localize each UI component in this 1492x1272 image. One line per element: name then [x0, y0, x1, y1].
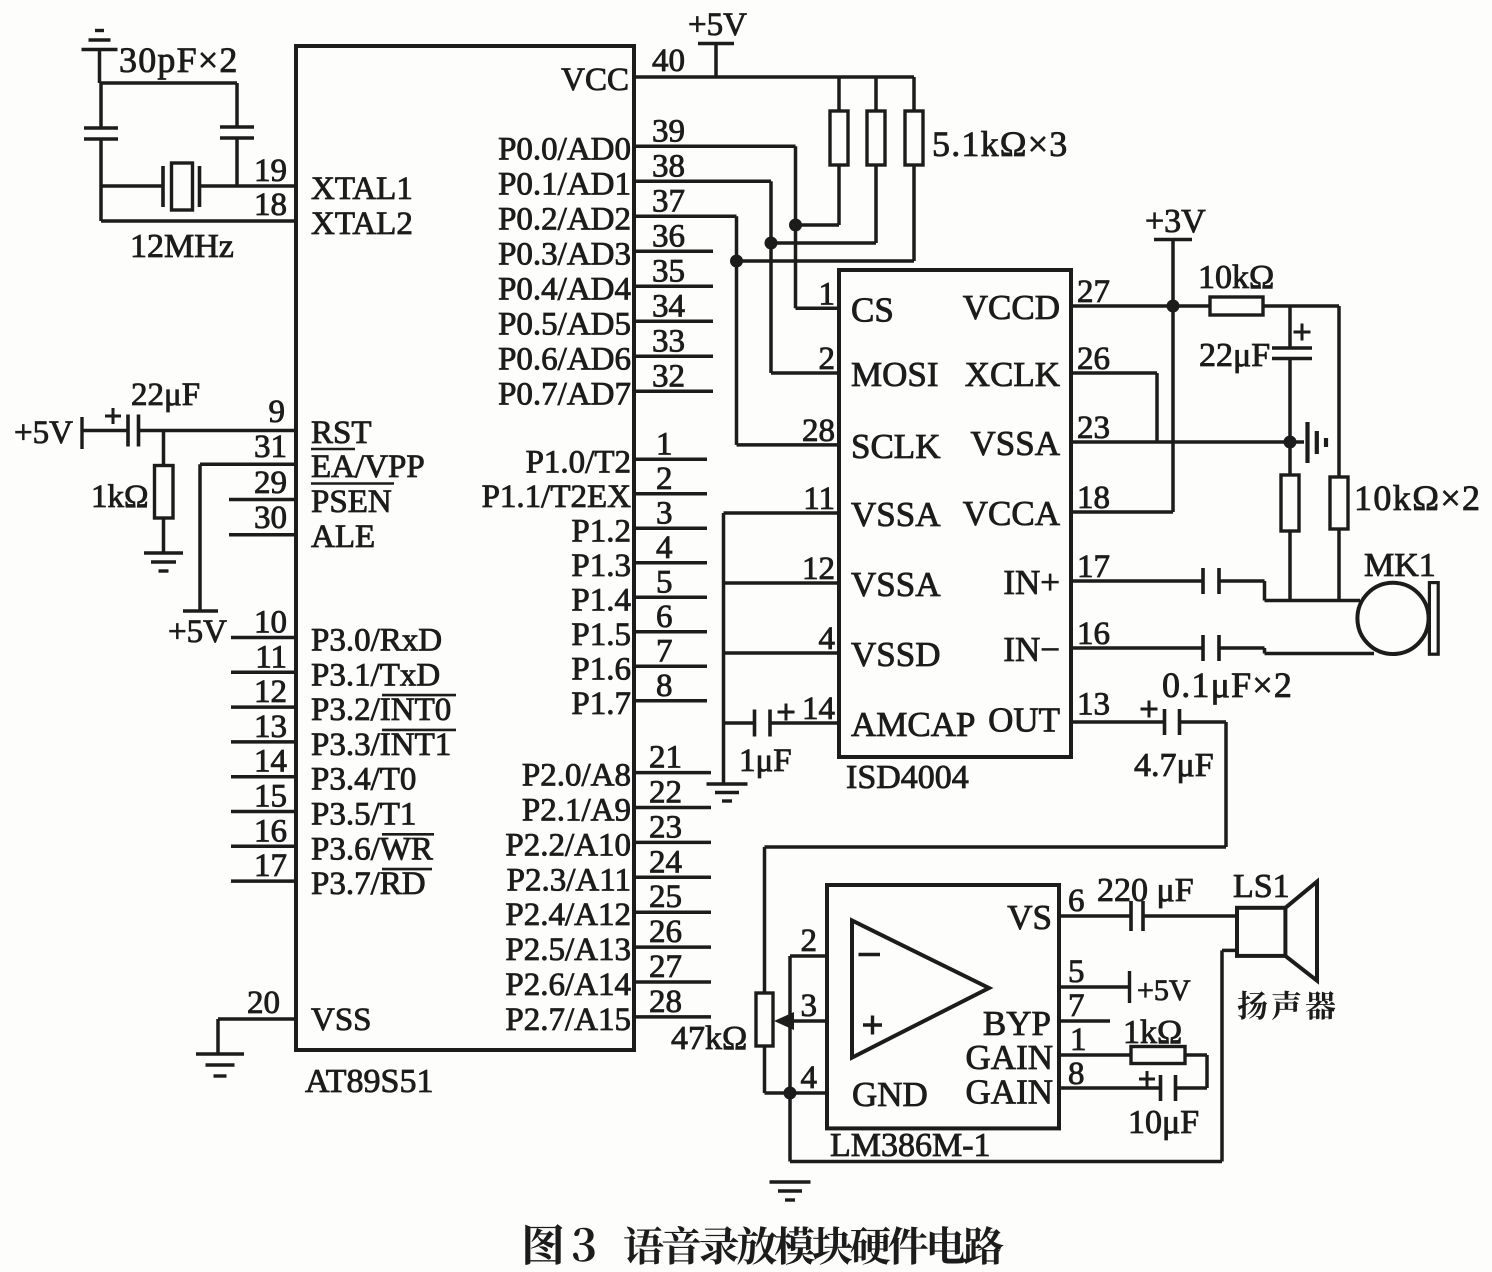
svg-text:26: 26: [649, 914, 682, 950]
capacitor C5 22uF: [1272, 306, 1312, 442]
svg-text:33: 33: [652, 323, 685, 359]
pin P2.5/A13 26: [505, 914, 711, 968]
pin ISD XCLK 26: [965, 341, 1110, 394]
IC U1 AT89S51 body: [296, 46, 634, 1050]
svg-text:IN−: IN−: [1003, 630, 1060, 669]
pin P2.4/A12 25: [505, 879, 711, 933]
svg-text:P2.7/A15: P2.7/A15: [505, 1002, 631, 1038]
ground (R1): [144, 553, 183, 571]
svg-text:22μF: 22μF: [131, 377, 200, 413]
svg-text:12MHz: 12MHz: [130, 228, 234, 265]
svg-text:36: 36: [652, 218, 685, 254]
svg-text:5.1kΩ×3: 5.1kΩ×3: [932, 124, 1068, 164]
pin P3.7/RD 17: [231, 848, 432, 902]
svg-text:P3.2/INT0: P3.2/INT0: [311, 692, 451, 728]
label 10k: [1198, 259, 1274, 296]
svg-text:VSSA: VSSA: [851, 495, 941, 534]
svg-text:MOSI: MOSI: [851, 355, 939, 394]
resistor R1 1k: [155, 431, 174, 554]
pin P3.6/WR 16: [231, 813, 434, 867]
svg-text:5: 5: [656, 564, 673, 600]
svg-text:P1.0/T2: P1.0/T2: [526, 444, 631, 480]
wire R5 to bias: [1263, 304, 1339, 308]
pin P1.5 6: [571, 599, 707, 653]
pin LM386 4 GND: [765, 1060, 928, 1114]
IC U3 LM386M-1 body: [827, 885, 1059, 1128]
svg-text:P3.1/TxD: P3.1/TxD: [311, 657, 440, 693]
wire XTAL1 pin 19: [199, 153, 413, 207]
svg-text:28: 28: [649, 984, 682, 1020]
svg-text:30: 30: [254, 500, 287, 536]
svg-text:17: 17: [254, 848, 287, 884]
label 4.7uF: [1134, 747, 1214, 784]
svg-text:P2.6/A14: P2.6/A14: [505, 967, 631, 1003]
svg-text:RST: RST: [311, 415, 372, 451]
pin LM386 2: [790, 923, 827, 959]
label 1k (gain): [1123, 1014, 1182, 1051]
svg-text:2: 2: [656, 461, 673, 497]
wire +3V to VCCA: [1071, 240, 1173, 513]
svg-text:P2.3/A11: P2.3/A11: [507, 862, 631, 898]
pin ISD IN+ 17: [1003, 549, 1110, 602]
wire top rail: [100, 81, 238, 85]
svg-text:31: 31: [254, 429, 287, 465]
IC U3 label LM386M-1: [830, 1127, 991, 1164]
wire VSSD 4: [724, 651, 840, 655]
pin ISD MOSI 2: [819, 341, 939, 394]
pin P3.1/TxD 11: [231, 639, 440, 693]
svg-text:3: 3: [801, 988, 818, 1024]
svg-text:P1.7: P1.7: [571, 686, 631, 722]
svg-text:LM386M-1: LM386M-1: [830, 1127, 991, 1164]
wire XCLK to VSSA: [1071, 373, 1157, 442]
capacitor C3 22uF: [105, 408, 296, 447]
pin LM386 VS 6: [1007, 883, 1084, 937]
svg-text:18: 18: [254, 187, 287, 223]
pin ISD AMCAP 14: [802, 691, 975, 744]
junction VSSA/C5: [1284, 436, 1297, 449]
caption 图3: [525, 1224, 594, 1265]
svg-text:47kΩ: 47kΩ: [671, 1020, 747, 1057]
svg-text:XTAL1: XTAL1: [311, 171, 413, 207]
pin P0.5/AD5 34: [498, 288, 713, 342]
svg-text:5: 5: [1068, 954, 1085, 990]
svg-text:P2.0/A8: P2.0/A8: [522, 758, 631, 794]
svg-text:EA/VPP: EA/VPP: [311, 449, 425, 485]
svg-text:25: 25: [649, 879, 682, 915]
terminal +5V (LM386): [1130, 971, 1191, 1007]
wire P0.0 to CS: [796, 146, 840, 308]
svg-text:13: 13: [254, 709, 287, 745]
svg-text:P1.4: P1.4: [571, 582, 631, 618]
pin RST 9: [269, 394, 372, 451]
wire VSSA 11: [724, 511, 840, 515]
pin P0.6/AD6 33: [498, 323, 713, 377]
pin VCC 40: [561, 43, 685, 98]
svg-text:+5V: +5V: [168, 614, 227, 650]
label 22uF (RST): [131, 377, 200, 413]
svg-text:ISD4004: ISD4004: [846, 759, 969, 796]
junction P0.0/R2: [789, 219, 802, 232]
svg-text:4: 4: [656, 530, 673, 566]
label 30pF x2: [119, 40, 239, 80]
svg-text:7: 7: [1068, 988, 1085, 1024]
resistor R7 10k: [1330, 306, 1348, 601]
svg-text:10: 10: [254, 605, 287, 641]
pin P3.3/INT1 13: [231, 709, 456, 763]
capacitor C2 30pF: [220, 83, 254, 186]
svg-text:+5V: +5V: [14, 415, 73, 451]
svg-text:XTAL2: XTAL2: [311, 206, 413, 242]
svg-text:VSSA: VSSA: [971, 424, 1061, 463]
svg-text:P1.3: P1.3: [571, 548, 631, 584]
resistor R4 5.1k: [737, 77, 924, 261]
svg-text:GAIN: GAIN: [966, 1038, 1053, 1077]
pin LM386 GAIN 1: [966, 1022, 1131, 1077]
wire gnd rail: [790, 1093, 1222, 1162]
op-amp minus: [859, 953, 881, 957]
wire P0.2 to SCLK: [737, 216, 840, 445]
pin EA/VPP 31: [200, 429, 425, 485]
label 5.1k x3: [932, 124, 1068, 164]
pin ISD VCCA 18: [963, 480, 1110, 533]
svg-text:14: 14: [254, 744, 287, 780]
svg-text:9: 9: [269, 394, 286, 430]
svg-text:16: 16: [254, 813, 287, 849]
wire pin2 to gnd: [788, 956, 792, 1093]
pin P0.4/AD4 35: [498, 253, 713, 307]
wire VSS bus: [722, 513, 726, 784]
svg-text:ALE: ALE: [311, 519, 375, 555]
svg-text:P1.5: P1.5: [571, 617, 631, 653]
pin LM386 GAIN 8: [966, 1056, 1161, 1112]
svg-text:39: 39: [652, 113, 685, 149]
svg-text:CS: CS: [851, 290, 894, 329]
pin P2.6/A14 27: [505, 949, 711, 1003]
pin P3.5/T1 15: [231, 779, 416, 833]
pin P0.7/AD7 32: [498, 358, 713, 412]
svg-text:27: 27: [649, 949, 682, 985]
svg-text:220 μF: 220 μF: [1097, 872, 1194, 909]
pin P1.0/T2 1: [526, 426, 707, 480]
svg-text:OUT: OUT: [988, 701, 1060, 740]
svg-text:32: 32: [652, 358, 685, 394]
svg-text:P0.1/AD1: P0.1/AD1: [498, 166, 631, 202]
svg-text:AMCAP: AMCAP: [851, 705, 975, 744]
pin P2.0/A8 21: [522, 740, 711, 794]
pin P3.2/INT0 12: [231, 674, 456, 728]
svg-text:10kΩ×2: 10kΩ×2: [1354, 478, 1481, 518]
svg-text:VCCA: VCCA: [963, 494, 1061, 533]
wire VCC rail +5V: [634, 75, 914, 79]
svg-text:P2.2/A10: P2.2/A10: [505, 827, 631, 863]
svg-text:MK1: MK1: [1364, 547, 1436, 584]
pin ISD IN− 16: [1003, 616, 1110, 669]
svg-text:1μF: 1μF: [739, 743, 792, 779]
label 10uF: [1128, 1104, 1199, 1141]
svg-text:P3.5/T1: P3.5/T1: [311, 797, 416, 833]
svg-text:P0.5/AD5: P0.5/AD5: [498, 306, 631, 342]
microphone MK1: [1357, 583, 1438, 655]
svg-text:19: 19: [254, 153, 287, 189]
pin P2.3/A11 24: [507, 844, 711, 898]
svg-text:SCLK: SCLK: [851, 427, 940, 466]
svg-text:6: 6: [1068, 883, 1085, 919]
svg-text:PSEN: PSEN: [311, 484, 392, 520]
label 22uF: [1199, 337, 1270, 374]
svg-text:2: 2: [801, 923, 818, 959]
label 0.1uF x2: [1162, 665, 1293, 705]
wire OUT to amp: [765, 722, 1227, 993]
svg-text:11: 11: [255, 639, 287, 675]
svg-text:+5V: +5V: [1137, 974, 1191, 1007]
svg-text:40: 40: [652, 43, 685, 79]
svg-text:P3.0/RxD: P3.0/RxD: [311, 623, 442, 659]
ground (crystal caps): [82, 31, 118, 84]
svg-text:2: 2: [819, 341, 836, 377]
junction VCCD/+3V: [1167, 300, 1180, 313]
svg-text:1: 1: [656, 426, 673, 462]
svg-text:28: 28: [802, 413, 835, 449]
ground (VSS): [196, 1019, 244, 1076]
pin P2.7/A15 28: [505, 984, 711, 1038]
ground (LM386): [770, 1182, 811, 1200]
pot wiper arrow: [774, 1012, 827, 1030]
pin P1.7 8: [571, 668, 707, 722]
label 12MHz: [130, 228, 234, 265]
svg-text:13: 13: [1077, 687, 1110, 723]
wire VSSA 12: [724, 581, 840, 585]
label 47k: [671, 1020, 747, 1057]
svg-text:GAIN: GAIN: [966, 1073, 1053, 1112]
wire VSSA 23: [1071, 440, 1290, 444]
speaker LS1: [1237, 882, 1317, 981]
pin P3.0/RxD 10: [231, 605, 442, 659]
op-amp triangle: [852, 921, 989, 1058]
svg-text:P0.0/AD0: P0.0/AD0: [498, 131, 631, 167]
terminal +5V (RST): [82, 417, 128, 449]
IC U2 label ISD4004: [846, 759, 969, 796]
resistor R8 1k: [1131, 1047, 1207, 1089]
label +5V (RST): [14, 415, 73, 451]
svg-text:+3V: +3V: [1145, 203, 1206, 240]
svg-text:P2.5/A13: P2.5/A13: [505, 932, 631, 968]
pin PSEN 29: [229, 465, 392, 520]
caption text: [624, 1226, 1003, 1265]
label LS1: [1233, 868, 1290, 905]
capacitor C4 1uF: [724, 704, 840, 737]
capacitor C8 4.7uF: [1071, 701, 1180, 736]
label 1k: [91, 479, 149, 515]
wire P0.1 to MOSI: [771, 181, 839, 373]
svg-text:35: 35: [652, 253, 685, 289]
resistor R2 5.1k: [796, 77, 848, 225]
svg-text:AT89S51: AT89S51: [305, 1063, 433, 1100]
svg-text:4: 4: [801, 1060, 818, 1096]
svg-text:GND: GND: [852, 1075, 928, 1114]
svg-text:P1.6: P1.6: [571, 651, 631, 687]
svg-text:22: 22: [649, 775, 682, 811]
svg-text:P3.4/T0: P3.4/T0: [311, 762, 416, 798]
svg-text:VCC: VCC: [561, 62, 629, 98]
pin P0.2/AD2 37: [498, 183, 736, 237]
svg-text:VSSA: VSSA: [851, 565, 941, 604]
resistor R5 10k: [1210, 297, 1263, 315]
svg-text:1: 1: [1070, 1022, 1087, 1058]
pin ISD VSSA 23: [971, 410, 1110, 463]
svg-text:P0.3/AD3: P0.3/AD3: [498, 236, 631, 272]
svg-text:7: 7: [656, 633, 673, 669]
junction P0.2/R4: [730, 255, 743, 268]
terminal +5V (VCC): [688, 7, 747, 77]
svg-text:24: 24: [649, 844, 682, 880]
svg-text:29: 29: [254, 465, 287, 501]
pin P1.4 5: [571, 564, 707, 618]
pin ISD CS 1: [819, 276, 894, 329]
pin P0.1/AD1 38: [498, 148, 771, 202]
capacitor C7 0.1uF: [1071, 635, 1265, 661]
svg-text:VSS: VSS: [311, 1002, 372, 1038]
junction P0.1/R3: [765, 237, 778, 250]
label speaker (CJK): [1238, 991, 1336, 1020]
svg-text:XCLK: XCLK: [965, 355, 1060, 394]
svg-text:P0.7/AD7: P0.7/AD7: [498, 376, 631, 412]
capacitor C6 0.1uF: [1071, 568, 1265, 594]
pin ISD SCLK 28: [802, 413, 940, 466]
wire IN- to MK1: [1265, 648, 1375, 654]
pin P0.3/AD3 36: [498, 218, 713, 272]
svg-text:30pF×2: 30pF×2: [119, 40, 239, 80]
junction pin4/pin2: [784, 1087, 797, 1100]
svg-text:VCCD: VCCD: [963, 288, 1060, 327]
terminal +3V: [1145, 203, 1206, 240]
svg-text:34: 34: [652, 288, 685, 324]
pin P3.4/T0 14: [231, 744, 416, 798]
svg-text:21: 21: [649, 740, 682, 776]
svg-text:P2.4/A12: P2.4/A12: [505, 897, 631, 933]
pin P1.1/T2EX 2: [482, 461, 707, 515]
pin ISD VCCD 27: [963, 274, 1110, 327]
svg-text:P3.6/WR: P3.6/WR: [311, 831, 433, 867]
svg-text:8: 8: [656, 668, 673, 704]
pin P1.2 3: [571, 495, 707, 549]
svg-text:VSSD: VSSD: [851, 635, 940, 674]
svg-text:P2.1/A9: P2.1/A9: [522, 793, 631, 829]
wire speaker return: [1222, 950, 1237, 1161]
svg-text:37: 37: [652, 183, 685, 219]
svg-text:10μF: 10μF: [1128, 1104, 1199, 1141]
svg-text:22μF: 22μF: [1199, 337, 1270, 374]
svg-text:P0.4/AD4: P0.4/AD4: [498, 271, 631, 307]
svg-text:P3.3/INT1: P3.3/INT1: [311, 727, 451, 763]
pin ISD VSSA 12: [802, 551, 941, 604]
op-amp plus: [863, 1016, 882, 1035]
wire VCCD 27: [1071, 304, 1210, 308]
label 220uF: [1097, 872, 1194, 909]
svg-text:3: 3: [656, 495, 673, 531]
ground (analog, sideways): [1290, 422, 1326, 463]
wire XTAL2 pin 18: [101, 187, 413, 242]
pin P1.6 7: [571, 633, 707, 687]
resistor R3 5.1k: [771, 77, 885, 243]
svg-text:1: 1: [819, 276, 836, 312]
capacitor C10 10uF: [1139, 1071, 1176, 1101]
capacitor C1 30pF: [84, 83, 118, 221]
label 1uF: [739, 743, 792, 779]
svg-text:+5V: +5V: [688, 7, 747, 43]
capacitor C9 220uF: [1059, 901, 1237, 931]
svg-text:12: 12: [254, 674, 287, 710]
resistor R6 10k: [1281, 442, 1299, 601]
svg-text:4.7μF: 4.7μF: [1134, 747, 1214, 784]
crystal Y1 12MHz: [101, 163, 200, 210]
IC U1 label AT89S51: [305, 1063, 433, 1100]
svg-text:15: 15: [254, 779, 287, 815]
potentiometer RP1 47k: [756, 993, 773, 1093]
svg-text:P1.1/T2EX: P1.1/T2EX: [482, 479, 632, 515]
pin LM386 3: [801, 988, 818, 1024]
pin P2.1/A9 22: [522, 775, 711, 829]
IC U2 ISD4004 body: [839, 270, 1071, 757]
svg-text:8: 8: [1068, 1056, 1085, 1092]
terminal +5V (EA): [168, 611, 227, 650]
svg-text:23: 23: [649, 809, 682, 845]
pin ISD VSSD 4: [819, 621, 941, 674]
svg-text:10kΩ: 10kΩ: [1198, 259, 1274, 296]
wire IN+ to MK1: [1265, 581, 1361, 601]
pin ALE 30: [229, 500, 375, 555]
svg-text:P0.6/AD6: P0.6/AD6: [498, 341, 631, 377]
svg-text:38: 38: [652, 148, 685, 184]
pin LM386 BYP 7: [983, 988, 1110, 1043]
svg-text:P1.2: P1.2: [571, 513, 631, 549]
svg-text:LS1: LS1: [1233, 868, 1290, 905]
svg-text:1kΩ: 1kΩ: [1123, 1014, 1182, 1051]
ground (VSS bus): [707, 784, 748, 801]
svg-text:P0.2/AD2: P0.2/AD2: [498, 201, 631, 237]
pin LM386 5: [1059, 954, 1130, 990]
svg-text:0.1μF×2: 0.1μF×2: [1162, 665, 1293, 705]
svg-text:6: 6: [656, 599, 673, 635]
pin P0.0/AD0 39: [498, 113, 795, 167]
label MK1: [1364, 547, 1436, 584]
pin P2.2/A10 23: [505, 809, 711, 863]
pin P1.3 4: [571, 530, 707, 584]
wire EA to +5V: [198, 464, 202, 611]
svg-text:VS: VS: [1007, 898, 1052, 937]
svg-text:P3.7/RD: P3.7/RD: [311, 866, 426, 902]
pin VSS 20: [218, 985, 372, 1038]
svg-text:1kΩ: 1kΩ: [91, 479, 149, 515]
svg-text:IN+: IN+: [1003, 563, 1060, 602]
pin ISD OUT 13: [988, 687, 1110, 740]
svg-text:20: 20: [247, 985, 280, 1021]
label 10k x2: [1354, 478, 1481, 518]
pin ISD VSSA 11: [803, 481, 941, 534]
